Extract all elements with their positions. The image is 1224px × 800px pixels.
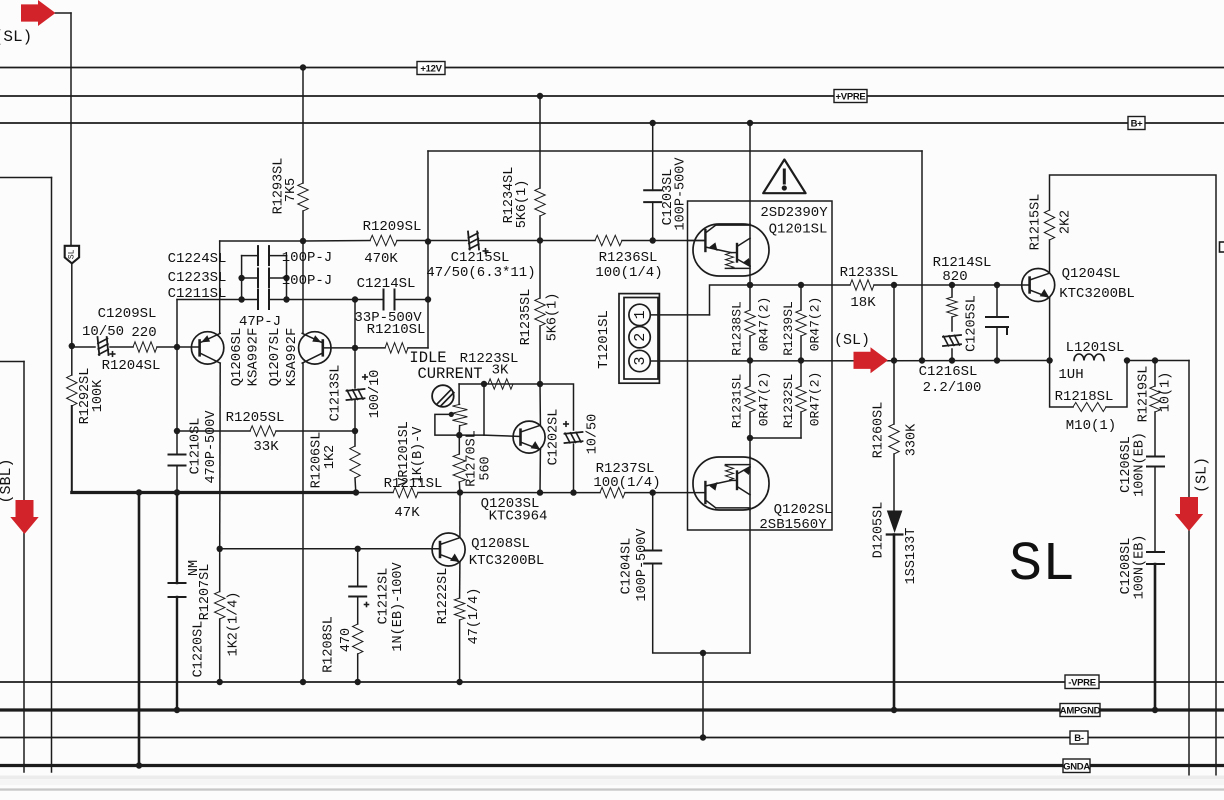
svg-text:100P-500V: 100P-500V	[635, 528, 650, 602]
svg-text:Q1201SL: Q1201SL	[769, 222, 828, 238]
svg-text:7K5: 7K5	[284, 178, 299, 202]
svg-text:47P-J: 47P-J	[239, 314, 281, 330]
svg-text:100(1/4): 100(1/4)	[593, 475, 660, 491]
svg-text:1SS133T: 1SS133T	[904, 528, 919, 585]
svg-text:0R47(2): 0R47(2)	[808, 372, 823, 427]
svg-text:0R47(2): 0R47(2)	[757, 297, 772, 352]
svg-text:R1218SL: R1218SL	[1055, 389, 1114, 405]
svg-text:C1202SL: C1202SL	[547, 409, 562, 466]
svg-text:R1219SL: R1219SL	[1137, 366, 1152, 423]
svg-text:1UH: 1UH	[1058, 367, 1083, 383]
svg-text:GNDA: GNDA	[1063, 761, 1090, 772]
svg-text:C1215SL: C1215SL	[451, 250, 510, 266]
svg-text:M10(1): M10(1)	[1066, 418, 1116, 434]
svg-text:100(1/4): 100(1/4)	[595, 265, 662, 281]
svg-text:100P-J: 100P-J	[282, 273, 332, 289]
svg-text:+12V: +12V	[420, 64, 442, 75]
svg-text:Q1208SL: Q1208SL	[471, 536, 530, 552]
svg-text:47/50(6.3*11): 47/50(6.3*11)	[426, 265, 535, 281]
svg-text:(SL): (SL)	[0, 28, 32, 46]
svg-text:R1210SL: R1210SL	[367, 322, 426, 338]
svg-text:470: 470	[339, 628, 354, 652]
svg-text:3: 3	[632, 356, 649, 365]
svg-text:R1231SL: R1231SL	[730, 374, 745, 429]
svg-text:1N(EB)-100V: 1N(EB)-100V	[391, 562, 406, 652]
svg-text:1: 1	[632, 310, 649, 319]
svg-text:B+: B+	[1131, 119, 1144, 130]
svg-text:C1210SL: C1210SL	[189, 418, 204, 475]
svg-text:5K6(1): 5K6(1)	[515, 180, 530, 229]
svg-text:Q1207SL: Q1207SL	[267, 328, 283, 387]
svg-text:3K: 3K	[492, 363, 509, 379]
svg-text:2SB1560Y: 2SB1560Y	[759, 517, 827, 533]
svg-text:330K: 330K	[905, 423, 920, 456]
svg-text:R1209SL: R1209SL	[363, 219, 422, 235]
svg-text:470K: 470K	[364, 251, 398, 267]
svg-text:R1207SL: R1207SL	[198, 564, 213, 621]
svg-text:R1208SL: R1208SL	[322, 616, 337, 673]
svg-text:R1239SL: R1239SL	[781, 301, 796, 356]
svg-text:KSA992F: KSA992F	[246, 328, 262, 387]
svg-text:R1215SL: R1215SL	[1029, 194, 1044, 251]
svg-text:KTC3200BL: KTC3200BL	[469, 553, 545, 569]
svg-text:560: 560	[479, 456, 494, 480]
svg-text:C1204SL: C1204SL	[620, 538, 635, 595]
svg-text:C1205SL: C1205SL	[965, 295, 980, 352]
svg-text:Q1206SL: Q1206SL	[229, 328, 245, 387]
svg-text:(SL): (SL)	[1194, 457, 1211, 493]
svg-text:0R47(2): 0R47(2)	[757, 372, 772, 427]
svg-text:AMPGND: AMPGND	[1060, 706, 1101, 717]
svg-text:820: 820	[942, 269, 967, 285]
svg-text:100N(EB): 100N(EB)	[1133, 432, 1148, 497]
svg-text:C1216SL: C1216SL	[919, 364, 978, 380]
svg-text:C1220SL: C1220SL	[192, 621, 207, 678]
svg-text:-VPRE: -VPRE	[1068, 677, 1096, 688]
svg-text:100/10: 100/10	[368, 370, 383, 419]
svg-text:C1213SL: C1213SL	[329, 365, 344, 422]
svg-text:T1201SL: T1201SL	[596, 310, 612, 369]
svg-text:R1232SL: R1232SL	[781, 374, 796, 429]
svg-text:Q1202SL: Q1202SL	[774, 502, 833, 518]
svg-text:1K2: 1K2	[323, 445, 338, 469]
svg-text:2: 2	[632, 333, 649, 342]
svg-text:KTC3964: KTC3964	[489, 509, 548, 525]
svg-text:CURRENT: CURRENT	[417, 365, 482, 383]
svg-text:C1209SL: C1209SL	[98, 306, 157, 322]
svg-text:5K6(1): 5K6(1)	[546, 293, 561, 342]
svg-text:220: 220	[131, 325, 156, 341]
svg-text:R1204SL: R1204SL	[102, 358, 161, 374]
svg-text:R1222SL: R1222SL	[436, 568, 451, 625]
svg-text:B-: B-	[1074, 733, 1084, 744]
svg-text:33K: 33K	[253, 439, 279, 455]
svg-text:0R47(2): 0R47(2)	[808, 297, 823, 352]
svg-text:1K(B)-V: 1K(B)-V	[411, 426, 426, 484]
svg-text:2K2: 2K2	[1059, 210, 1074, 234]
svg-text:1K2(1/4): 1K2(1/4)	[226, 592, 241, 657]
svg-text:R1270SL: R1270SL	[465, 430, 480, 487]
svg-text:SL: SL	[67, 249, 76, 259]
svg-text:C1212SL: C1212SL	[377, 568, 392, 625]
svg-text:2.2/100: 2.2/100	[923, 380, 982, 396]
svg-text:L1201SL: L1201SL	[1066, 340, 1125, 356]
svg-text:R1236SL: R1236SL	[599, 250, 658, 266]
svg-text:10(1): 10(1)	[1159, 372, 1174, 413]
svg-text:C1214SL: C1214SL	[357, 276, 416, 292]
svg-text:+VPRE: +VPRE	[836, 92, 866, 103]
svg-text:R1233SL: R1233SL	[840, 265, 899, 281]
svg-text:C1223SL: C1223SL	[168, 270, 227, 286]
svg-text:R1205SL: R1205SL	[226, 410, 285, 426]
svg-text:R1260SL: R1260SL	[872, 402, 887, 459]
svg-text:10/50: 10/50	[586, 414, 601, 455]
svg-text:KSA992F: KSA992F	[284, 328, 300, 387]
svg-text:47K: 47K	[394, 505, 420, 521]
svg-text:SL: SL	[1009, 533, 1075, 596]
svg-text:KTC3200BL: KTC3200BL	[1059, 286, 1135, 302]
svg-text:470P-500V: 470P-500V	[204, 410, 219, 484]
svg-text:(SL): (SL)	[834, 332, 870, 349]
svg-text:R1235SL: R1235SL	[519, 289, 534, 346]
svg-text:(SBL): (SBL)	[0, 458, 15, 503]
svg-text:D1205SL: D1205SL	[872, 502, 887, 559]
svg-text:VR1201SL: VR1201SL	[397, 421, 412, 486]
svg-text:C1224SL: C1224SL	[168, 251, 227, 267]
svg-text:100P-J: 100P-J	[282, 250, 332, 266]
svg-text:10/50: 10/50	[82, 324, 124, 340]
svg-text:Q1204SL: Q1204SL	[1062, 266, 1121, 282]
svg-text:R1223SL: R1223SL	[460, 351, 519, 367]
svg-text:100K: 100K	[91, 379, 106, 412]
svg-text:47(1/4): 47(1/4)	[467, 588, 482, 645]
svg-text:R1238SL: R1238SL	[730, 301, 745, 356]
svg-text:100N(EB): 100N(EB)	[1133, 535, 1148, 600]
svg-text:100P-500V: 100P-500V	[673, 157, 688, 231]
svg-text:2SD2390Y: 2SD2390Y	[760, 205, 828, 221]
svg-text:18K: 18K	[850, 295, 876, 311]
